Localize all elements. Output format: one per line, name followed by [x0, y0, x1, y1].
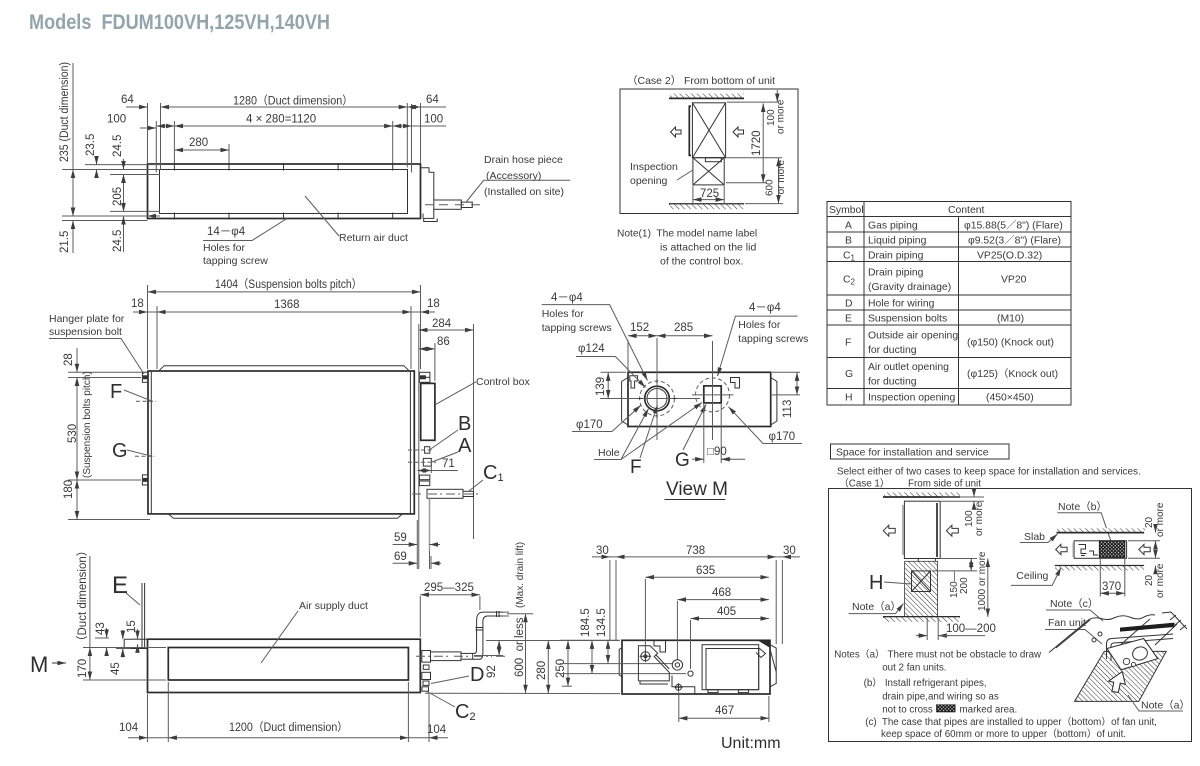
svg-text:tapping screws: tapping screws	[738, 333, 808, 345]
big hollow arrow right	[733, 127, 744, 137]
control box assembly seen from below	[638, 646, 669, 684]
drain hose pipe	[434, 200, 462, 209]
svg-text:Note（a）: Note（a）	[852, 601, 901, 613]
svg-text:H: H	[845, 393, 853, 404]
svg-text:Ceiling: Ceiling	[1016, 570, 1048, 582]
svg-text:Return air duct: Return air duct	[339, 232, 408, 244]
H inspection box with X	[912, 571, 931, 592]
unit rect rotated with X brace	[692, 103, 725, 158]
dim 100-200	[926, 618, 928, 640]
notes text	[834, 649, 1157, 741]
svg-text:D: D	[845, 299, 853, 310]
svg-text:C1: C1	[483, 462, 504, 484]
svg-text:635: 635	[696, 565, 715, 577]
svg-text:G: G	[845, 369, 853, 380]
svg-text:φ9.52(3／8") (Flare): φ9.52(3／8") (Flare)	[968, 235, 1061, 247]
dim 600 or more	[778, 158, 780, 204]
svg-text:(Suspension bolts pitch): (Suspension bolts pitch)	[82, 371, 93, 478]
svg-text:not to cross: not to cross	[882, 705, 933, 716]
A pipe stub	[423, 458, 431, 466]
svg-text:Unit:mm: Unit:mm	[721, 735, 781, 752]
svg-text:Drain piping: Drain piping	[868, 250, 924, 261]
A stub side	[422, 672, 431, 679]
svg-text:G: G	[112, 440, 128, 462]
svg-text:Drain hose piece: Drain hose piece	[484, 154, 563, 166]
svg-text:100: 100	[107, 114, 126, 126]
inspection opening rect with X	[693, 158, 724, 185]
svg-text:□90: □90	[707, 446, 727, 458]
svg-text:(450×450): (450×450)	[986, 393, 1034, 404]
hanger tab lower left	[142, 475, 148, 485]
svg-text:φ15.88(5／8") (Flare): φ15.88(5／8") (Flare)	[964, 220, 1063, 232]
svg-text:out 2 fan units.: out 2 fan units.	[882, 663, 946, 674]
svg-text:Symbol: Symbol	[829, 205, 864, 216]
left bracket	[622, 378, 628, 426]
svg-text:(c) The case that pipes are i: (c) The case that pipes are installed to…	[865, 716, 1157, 728]
air supply duct opening	[168, 648, 408, 681]
small screws on panel	[1098, 632, 1102, 636]
B pipe stub	[425, 447, 430, 454]
svg-text:250: 250	[555, 659, 567, 678]
svg-text:1200（Duct dimension）: 1200（Duct dimension）	[229, 721, 348, 734]
extension lines above	[148, 103, 421, 173]
svg-text:φ170: φ170	[769, 431, 796, 443]
svg-text:for ducting: for ducting	[868, 345, 917, 356]
svg-text:Note（a）: Note（a）	[1141, 700, 1190, 712]
hatch fringe at broken slab edge	[1170, 615, 1186, 630]
case2 border box	[620, 89, 798, 214]
bottom wall hatch	[669, 203, 744, 205]
svg-text:C2: C2	[843, 275, 856, 287]
dim 600 or less	[507, 613, 533, 615]
C1 drain pipe	[427, 489, 463, 498]
svg-text:4－φ4: 4－φ4	[551, 292, 583, 304]
svg-text:A: A	[458, 435, 472, 457]
dim 235 duct dimension (vertical)	[72, 63, 74, 170]
slab/ceiling drawing	[1011, 501, 1166, 598]
unit horizontal	[1074, 541, 1127, 559]
svg-text:From side of unit: From side of unit	[908, 479, 981, 490]
left hanger tab	[619, 648, 622, 677]
svg-text:86: 86	[437, 336, 450, 348]
svg-text:marked area.: marked area.	[960, 705, 1018, 716]
dim 71	[430, 466, 432, 473]
svg-text:20: 20	[1144, 516, 1155, 528]
ground hatch	[883, 616, 960, 618]
F center lines	[656, 338, 658, 440]
svg-text:235 (Duct dimension): 235 (Duct dimension)	[59, 62, 71, 162]
dim 405	[690, 620, 692, 669]
svg-text:18: 18	[427, 298, 440, 310]
hole ticks bottom edge	[173, 213, 175, 220]
svg-text:Control box: Control box	[476, 376, 530, 388]
svg-text:G: G	[675, 450, 690, 471]
fan/motor box	[702, 645, 759, 690]
dim 139	[601, 371, 627, 373]
svg-text:（Case 1）: （Case 1）	[839, 478, 890, 490]
svg-text:Holes for: Holes for	[203, 242, 246, 254]
hole F: solid circles	[645, 386, 670, 411]
svg-text:43: 43	[95, 622, 107, 635]
svg-text:Hole for wiring: Hole for wiring	[868, 299, 935, 310]
svg-text:VP25(O.D.32): VP25(O.D.32)	[977, 250, 1042, 261]
svg-text:280: 280	[189, 137, 208, 149]
dim 21.5	[72, 209, 74, 216]
left dims 28/530/180	[68, 372, 150, 519]
svg-text:B: B	[845, 236, 852, 247]
case1 drawing	[849, 490, 996, 640]
svg-text:30: 30	[596, 545, 609, 557]
svg-text:Note（c）: Note（c）	[1050, 598, 1098, 610]
svg-text:M: M	[30, 652, 48, 677]
svg-text:A: A	[845, 221, 852, 232]
svg-text:370: 370	[1102, 581, 1121, 593]
dim 69	[393, 562, 418, 564]
svg-text:or more: or more	[1155, 563, 1166, 598]
dim 1404 suspension bolts pitch	[148, 285, 421, 369]
dim 113	[772, 371, 800, 373]
top lid panel	[159, 366, 410, 371]
dim 370	[1099, 559, 1101, 597]
svg-text:or more: or more	[974, 501, 985, 536]
svg-text:295—325: 295—325	[424, 582, 474, 594]
dims 152 / 285	[627, 340, 629, 371]
svg-text:530: 530	[67, 424, 79, 443]
dim 43	[95, 637, 109, 639]
svg-text:(Gravity drainage): (Gravity drainage)	[868, 282, 951, 293]
svg-text:184.5: 184.5	[580, 608, 592, 637]
right side drain piping	[422, 651, 431, 663]
dim 635	[644, 579, 646, 652]
svg-text:(Max. drain lift): (Max. drain lift)	[515, 542, 526, 608]
svg-text:or more: or more	[776, 160, 787, 195]
svg-text:20: 20	[1144, 574, 1155, 586]
svg-text:From bottom of unit: From bottom of unit	[684, 75, 775, 87]
dim 280	[174, 149, 229, 151]
svg-text:φ124: φ124	[578, 343, 605, 355]
svg-text:100—200: 100—200	[946, 623, 996, 635]
dim 1280	[161, 106, 408, 108]
svg-text:E: E	[845, 314, 852, 325]
unit outline	[622, 640, 770, 694]
svg-text:45: 45	[110, 662, 122, 675]
hollow arrow down-left	[1105, 668, 1130, 695]
svg-text:59: 59	[394, 532, 407, 544]
dim 64 right	[421, 106, 447, 108]
small circle (405)	[688, 671, 693, 676]
svg-text:467: 467	[715, 705, 734, 717]
svg-text:Liquid piping: Liquid piping	[868, 236, 927, 247]
svg-text:opening: opening	[630, 175, 668, 187]
svg-text:drain pipe,and wiring so as: drain pipe,and wiring so as	[882, 692, 999, 703]
svg-text:104: 104	[119, 722, 139, 734]
top-right hanger flag	[731, 378, 740, 389]
svg-text:1368: 1368	[274, 299, 300, 311]
svg-text:Slab: Slab	[1024, 531, 1045, 543]
arrows	[1056, 544, 1067, 554]
screw circle with cross	[641, 652, 650, 661]
D stub	[423, 681, 429, 685]
svg-text:180: 180	[63, 480, 75, 499]
svg-text:15: 15	[126, 620, 138, 633]
B stub side	[423, 665, 429, 669]
dim 150-200	[941, 558, 977, 560]
step outline lower	[672, 676, 695, 695]
dim 100 left	[140, 127, 156, 129]
svg-text:Models FDUM100VH,125VH,140VH: Models FDUM100VH,125VH,140VH	[29, 10, 330, 34]
svg-text:600: 600	[765, 179, 776, 196]
svg-text:is attached on the lid: is attached on the lid	[660, 242, 756, 254]
dim 100 right	[393, 125, 412, 127]
dim 59	[393, 544, 418, 546]
marked crosshatch area	[1099, 541, 1124, 558]
drain circle	[672, 660, 682, 670]
bottom small tab	[424, 218, 438, 221]
svg-text:1000 or more: 1000 or more	[977, 551, 988, 611]
svg-text:Gas piping: Gas piping	[868, 221, 918, 232]
svg-text:113: 113	[782, 400, 794, 418]
top dim ext lines	[610, 560, 783, 644]
svg-text:Holes for: Holes for	[738, 319, 781, 331]
svg-text:1404（Suspension bolts pitch）: 1404（Suspension bolts pitch）	[215, 278, 362, 291]
slab hatch	[1057, 528, 1145, 532]
svg-text:Inspection opening: Inspection opening	[868, 393, 955, 404]
svg-text:(Installed on site): (Installed on site)	[484, 186, 564, 198]
boxed section title	[831, 444, 1009, 459]
hole G: square	[704, 386, 721, 403]
svg-text:for ducting: for ducting	[868, 377, 917, 388]
svg-text:(b） Install refrigerant pipes,: (b） Install refrigerant pipes,	[864, 677, 987, 689]
duct flange outer rect	[148, 164, 421, 219]
hole G dashed circle	[696, 378, 730, 412]
svg-text:C2: C2	[455, 701, 476, 723]
svg-text:Space for installation and ser: Space for installation and service	[836, 448, 989, 459]
svg-text:Content: Content	[948, 205, 985, 216]
G center lines	[712, 341, 714, 440]
svg-text:64: 64	[121, 94, 134, 106]
svg-text:Holes for: Holes for	[542, 308, 585, 320]
big hollow arrow left	[671, 127, 682, 137]
right top corner tab	[758, 640, 770, 647]
dim 295-325	[419, 596, 421, 637]
svg-text:VP20: VP20	[1001, 275, 1027, 286]
svg-text:200: 200	[959, 577, 970, 594]
hanger tab upper right	[419, 372, 430, 382]
dim 467	[678, 692, 680, 722]
svg-text:B: B	[458, 413, 471, 435]
svg-text:725: 725	[700, 188, 719, 200]
bottom dims 104 / 1200 / 104	[148, 682, 430, 742]
control box	[421, 383, 435, 440]
svg-text:Note（b）: Note（b）	[1058, 501, 1107, 513]
C2 stub	[422, 687, 429, 691]
svg-text:tapping screws: tapping screws	[542, 322, 612, 334]
hanger plate	[124, 639, 147, 648]
hole ticks top edge	[174, 163, 392, 220]
dim 280	[425, 692, 620, 694]
dim 23.5	[96, 157, 98, 165]
svg-text:284: 284	[432, 318, 452, 330]
top wall hatch	[670, 94, 744, 99]
dim 18 / 1368 / 18	[133, 311, 148, 313]
svg-text:18: 18	[131, 298, 144, 310]
isometric fan unit drawing	[1045, 598, 1190, 712]
svg-text:Hole: Hole	[598, 447, 620, 459]
dim 1720	[726, 157, 782, 159]
svg-text:104: 104	[427, 724, 447, 736]
svg-text:1720: 1720	[751, 130, 763, 156]
dim 1000 or more	[987, 559, 989, 617]
dim 24.5 lower	[123, 204, 125, 211]
svg-text:4 × 280=1120: 4 × 280=1120	[246, 114, 316, 126]
piping details inside	[1079, 545, 1099, 556]
svg-text:14－φ4: 14－φ4	[207, 226, 246, 238]
svg-text:738: 738	[686, 545, 705, 557]
ceiling plane	[1049, 620, 1089, 653]
svg-text:Drain piping: Drain piping	[868, 268, 924, 279]
svg-text:(φ125)（Knock out): (φ125)（Knock out)	[967, 368, 1058, 380]
hanger tab upper left	[142, 372, 148, 382]
svg-text:71: 71	[442, 458, 455, 470]
dim square 90	[703, 404, 705, 463]
dim 250	[562, 685, 572, 687]
svg-text:（Case 2）: （Case 2）	[627, 75, 681, 87]
svg-text:28: 28	[63, 353, 75, 366]
dim 64 left	[126, 106, 148, 108]
svg-text:φ170: φ170	[576, 419, 603, 431]
unit rect	[904, 501, 940, 558]
dim 92	[486, 640, 619, 642]
svg-text:134.5: 134.5	[596, 608, 608, 637]
dim 24.5 upper	[123, 159, 125, 170]
svg-text:64: 64	[426, 94, 439, 106]
arrows	[883, 525, 895, 536]
dim 725	[692, 186, 694, 203]
hole F dashed circle	[640, 381, 675, 416]
right hanger plate	[770, 645, 776, 687]
svg-text:205: 205	[112, 187, 124, 206]
svg-text:24.5: 24.5	[112, 135, 124, 157]
big border box	[828, 489, 1191, 742]
small + ticks on F bolt circle	[639, 379, 677, 418]
svg-text:D: D	[470, 664, 484, 686]
svg-text:Note(1) The model name label: Note(1) The model name label	[617, 228, 757, 240]
svg-text:Outside air opening: Outside air opening	[868, 331, 958, 342]
dim 4x280=1120	[174, 125, 392, 127]
svg-text:Inspection: Inspection	[630, 161, 678, 173]
svg-text:30: 30	[783, 545, 796, 557]
hatched wall below	[905, 561, 938, 616]
dim 30 / 738 / 30	[592, 556, 610, 558]
view M body rect	[628, 372, 771, 426]
svg-text:152: 152	[630, 322, 649, 334]
refrigerant pipe elbow	[1107, 634, 1174, 661]
svg-text:92: 92	[486, 665, 498, 678]
dim 170 duct dimension	[83, 647, 166, 649]
svg-text:(φ150) (Knock out): (φ150) (Knock out)	[967, 338, 1054, 349]
svg-text:170: 170	[77, 659, 89, 678]
table grid	[827, 202, 1071, 406]
gray drop line from C1 pipe	[429, 498, 431, 551]
svg-text:H: H	[869, 572, 883, 594]
svg-text:keep space of 60mm or more to: keep space of 60mm or more to upper（bott…	[881, 728, 1126, 740]
drain pipe center line	[425, 204, 481, 206]
svg-text:100: 100	[424, 114, 443, 126]
right bracket	[771, 378, 777, 426]
lower right hanger tabs	[419, 475, 429, 480]
svg-text:Air supply duct: Air supply duct	[299, 600, 368, 612]
svg-text:or more: or more	[1155, 502, 1166, 537]
dim 100 or more	[727, 101, 779, 103]
ceiling hatch	[1055, 565, 1144, 567]
svg-text:Notes（a） There must not be obs: Notes（a） There must not be obstacle to d…	[834, 649, 1042, 661]
svg-text:C1: C1	[843, 250, 856, 262]
unit body rect	[148, 371, 414, 514]
riser pipe with elbow	[473, 612, 503, 659]
svg-text:285: 285	[674, 322, 693, 334]
svg-text:tapping screw: tapping screw	[203, 255, 268, 267]
dim 15	[131, 638, 141, 640]
svg-text:405: 405	[717, 606, 736, 618]
svg-text:280: 280	[536, 661, 548, 680]
dim 205	[123, 175, 125, 212]
fan unit box	[1107, 639, 1158, 670]
duct collar under unit	[918, 559, 935, 564]
top-left hanger flag	[630, 376, 638, 388]
svg-text:（Duct dimension）: （Duct dimension）	[76, 545, 89, 647]
svg-text:23.5: 23.5	[85, 134, 97, 156]
svg-text:suspension bolt: suspension bolt	[49, 326, 122, 338]
left dims 184.5 / 134.5	[560, 639, 620, 641]
svg-text:or more: or more	[776, 99, 787, 134]
svg-text:1280（Duct dimension）: 1280（Duct dimension）	[233, 95, 353, 108]
dim 86	[434, 343, 436, 381]
svg-text:600 or less: 600 or less	[514, 617, 526, 677]
dim 468	[676, 601, 678, 660]
svg-text:69: 69	[394, 551, 407, 563]
bottom flange panel	[168, 514, 402, 518]
svg-text:E: E	[112, 572, 128, 599]
svg-text:(M10): (M10)	[997, 314, 1024, 325]
leader drain hose	[467, 180, 571, 201]
feet	[708, 690, 718, 693]
duct opening inner rect	[160, 170, 408, 214]
svg-text:View M: View M	[666, 479, 728, 500]
control box bar on unit left	[689, 106, 691, 155]
svg-text:Select either of two cases to: Select either of two cases to keep space…	[837, 467, 1141, 478]
svg-text:of the control box.: of the control box.	[660, 256, 743, 268]
svg-text:Suspension bolts: Suspension bolts	[868, 314, 947, 325]
hatched floor panel	[1075, 651, 1167, 701]
left extension lines	[62, 165, 160, 221]
dim 20 or more top	[1128, 540, 1160, 542]
svg-text:4－φ4: 4－φ4	[749, 302, 781, 314]
svg-text:F: F	[630, 457, 642, 478]
unit edge dark band	[1120, 623, 1175, 632]
drain housing right end	[421, 168, 434, 219]
dim 284	[473, 324, 475, 539]
dim 100 or more (top right)	[941, 496, 984, 498]
small circle (467)	[676, 684, 682, 690]
svg-text:21.5: 21.5	[59, 231, 71, 253]
svg-text:Hanger plate for: Hanger plate for	[49, 313, 125, 325]
unit body	[148, 639, 421, 692]
svg-text:468: 468	[712, 587, 731, 599]
svg-text:F: F	[845, 338, 851, 349]
dim 20 or more bottom	[1128, 557, 1160, 559]
dim 45	[116, 648, 131, 650]
svg-text:139: 139	[595, 377, 607, 396]
